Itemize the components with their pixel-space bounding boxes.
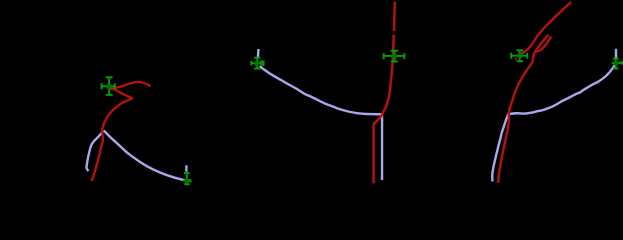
wire : panel 2 red track with vertical drop (374, 2, 395, 184)
node : panel 3 small red square left of green point 1 (515, 58, 517, 60)
node : panel 3 green point 1 error bars (511, 50, 527, 62)
wire : panel 1 red evolutionary track upper arc (92, 82, 151, 181)
node : panel 1 green point 2 error bars (183, 173, 191, 185)
node : panel 1 green point 1 error bars (101, 77, 115, 95)
wire : panel 3 red track return strand B (498, 35, 548, 183)
wire : panel 2 blue track arc and vertical drop (260, 66, 382, 180)
wire : panel 1 blue track main arc (104, 130, 187, 180)
node : panel 2 green point 1 marker circle (254, 61, 259, 66)
node : panel 2 green point 1 error bars (251, 58, 260, 69)
node : panel 1 green point 1 marker circle (106, 84, 112, 90)
wire : panel 3 red track upper diagonal A (521, 2, 571, 54)
node : panel 3 green point 2 error bars (612, 58, 623, 69)
node : panel 1 green point 2 marker circle (184, 178, 189, 183)
node : panel 2 green square marker right of point 1 (260, 61, 264, 66)
wire : panel 3 blue track main arc (509, 49, 617, 114)
node : panel 3 green point 1 marker circle (517, 53, 523, 59)
node : panel 2 green point 2 error bars (383, 50, 404, 62)
wire : panel 2 blue vertical above green point 1 (257, 49, 260, 57)
wire : panel 3 blue track left branch with vertical drop (492, 113, 518, 181)
node : panel 3 green point 2 marker circle (613, 61, 618, 66)
wire : panel 3 red short middle strand C (536, 37, 551, 52)
wire : panel 1 blue track left branch (86, 131, 103, 171)
node : panel 2 green point 2 marker circle (392, 54, 398, 60)
